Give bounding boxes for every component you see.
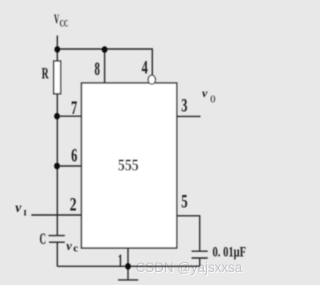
svg-text:3: 3	[181, 96, 187, 117]
svg-text:4: 4	[142, 58, 149, 79]
svg-text:7: 7	[71, 98, 78, 119]
svg-text:CSDN @yajsxxsa: CSDN @yajsxxsa	[136, 260, 243, 275]
svg-text:c: c	[73, 243, 78, 255]
svg-text:R: R	[42, 66, 49, 83]
svg-text:CC: CC	[60, 19, 69, 30]
svg-text:v: v	[202, 86, 208, 100]
svg-text:8: 8	[95, 59, 100, 80]
svg-text:5: 5	[181, 192, 187, 213]
svg-text:C: C	[40, 231, 47, 248]
svg-text:6: 6	[71, 145, 77, 166]
svg-text:0. 01μF: 0. 01μF	[213, 244, 247, 260]
svg-text:v: v	[66, 239, 72, 253]
svg-text:0: 0	[210, 95, 215, 106]
svg-text:V: V	[54, 12, 59, 27]
svg-text:v: v	[15, 200, 22, 215]
svg-text:1: 1	[118, 251, 123, 272]
svg-text:555: 555	[118, 155, 139, 174]
svg-text:2: 2	[70, 195, 77, 216]
